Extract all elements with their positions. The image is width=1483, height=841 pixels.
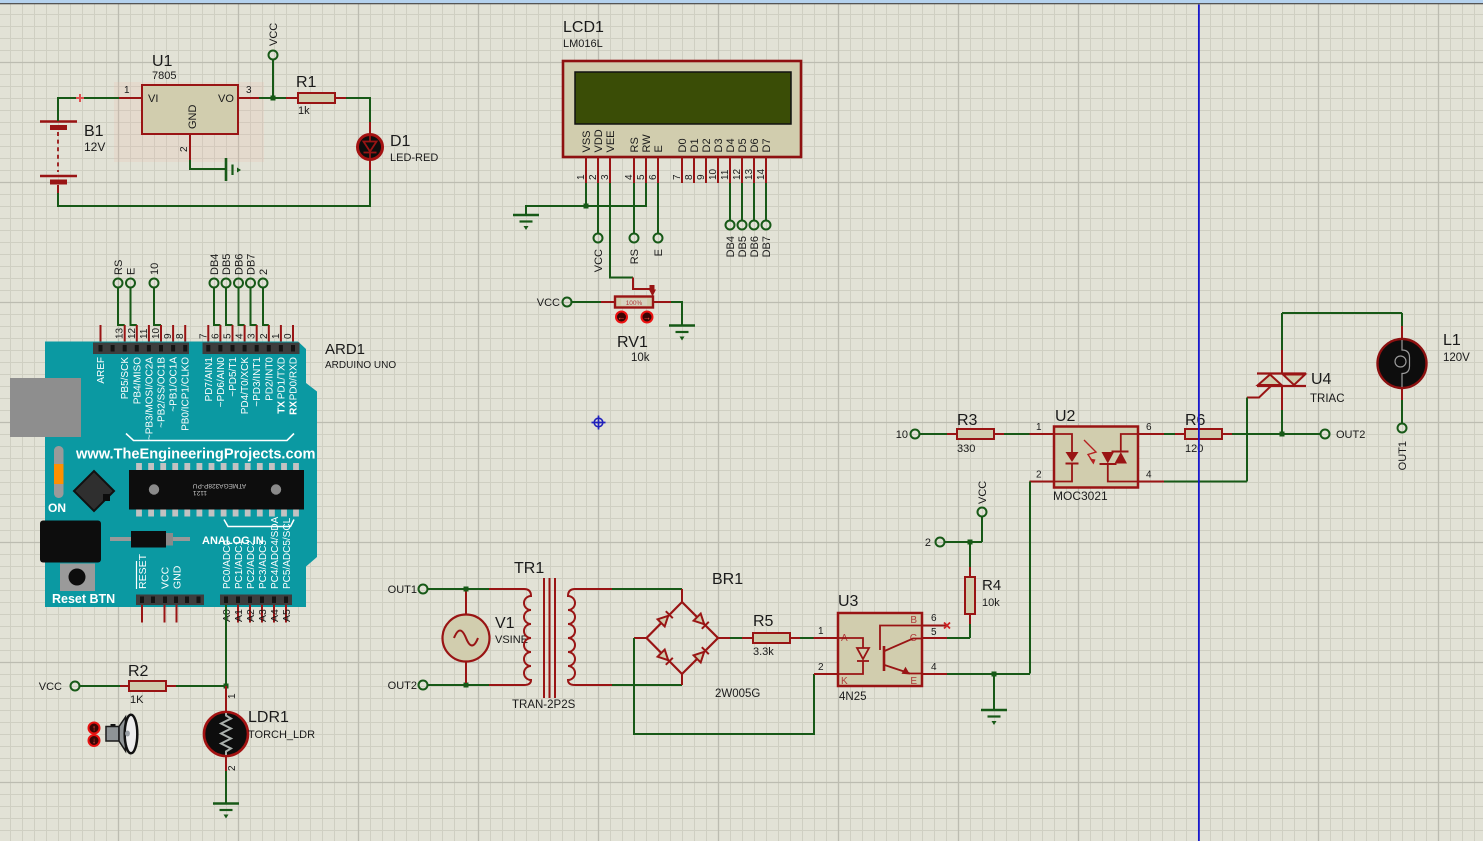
svg-text:5: 5 <box>223 333 234 339</box>
svg-text:V1: V1 <box>495 615 515 632</box>
svg-text:12V: 12V <box>84 140 105 154</box>
svg-text:DB7: DB7 <box>246 254 258 275</box>
svg-text:13: 13 <box>115 327 126 339</box>
svg-text:OUT2: OUT2 <box>1336 429 1365 441</box>
svg-text:ARDUINO UNO: ARDUINO UNO <box>325 360 396 371</box>
svg-text:4: 4 <box>624 174 635 180</box>
svg-text:U1: U1 <box>152 53 173 70</box>
svg-text:~PD6/AIN0: ~PD6/AIN0 <box>216 357 227 408</box>
svg-text:PC3/ADC3: PC3/ADC3 <box>258 540 269 589</box>
svg-text:LCD1: LCD1 <box>563 19 604 36</box>
svg-text:VEE: VEE <box>605 130 617 152</box>
svg-text:VI: VI <box>148 93 158 105</box>
svg-text:TRAN-2P2S: TRAN-2P2S <box>512 699 576 711</box>
svg-text:PC5/ADC5/SCL: PC5/ADC5/SCL <box>282 517 293 589</box>
svg-text:4: 4 <box>931 662 937 673</box>
svg-text:LED-RED: LED-RED <box>390 152 438 164</box>
svg-text:2: 2 <box>227 765 238 771</box>
svg-text:4N25: 4N25 <box>839 691 867 703</box>
svg-text:MOC3021: MOC3021 <box>1053 489 1108 503</box>
svg-text:2: 2 <box>1036 470 1042 481</box>
svg-text:11: 11 <box>139 328 150 339</box>
svg-text:2: 2 <box>259 333 270 339</box>
svg-text:R3: R3 <box>957 412 978 429</box>
svg-text:0: 0 <box>283 333 294 339</box>
svg-text:D3: D3 <box>713 138 725 152</box>
svg-text:VO: VO <box>218 93 234 105</box>
svg-text:330: 330 <box>957 443 975 455</box>
svg-text:D1: D1 <box>390 133 411 150</box>
svg-text:ATMEGA328P-PU: ATMEGA328P-PU <box>193 482 247 489</box>
svg-text:2: 2 <box>258 269 270 275</box>
svg-text:1: 1 <box>1036 422 1042 433</box>
svg-text:~PB1/OC1A: ~PB1/OC1A <box>169 357 180 412</box>
svg-text:PC0/ADC0: PC0/ADC0 <box>222 540 233 589</box>
svg-text:4: 4 <box>235 333 246 339</box>
svg-text:14: 14 <box>756 168 767 180</box>
svg-text:PC4/ADC4/SDA: PC4/ADC4/SDA <box>270 516 281 589</box>
svg-text:PC1/ADC1: PC1/ADC1 <box>234 540 245 589</box>
svg-text:1k: 1k <box>298 105 310 117</box>
svg-text:5: 5 <box>636 174 647 180</box>
svg-text:13: 13 <box>744 168 755 180</box>
svg-text:3.3k: 3.3k <box>753 646 774 658</box>
svg-text:TR1: TR1 <box>514 560 544 577</box>
svg-text:3: 3 <box>247 333 258 339</box>
svg-text:E: E <box>653 145 665 152</box>
svg-text:10: 10 <box>896 429 908 441</box>
svg-text:1K: 1K <box>130 694 144 706</box>
svg-text:A4: A4 <box>269 609 281 622</box>
svg-text:7: 7 <box>672 174 683 180</box>
svg-text:DB4: DB4 <box>209 254 221 275</box>
svg-text:D2: D2 <box>701 138 713 152</box>
svg-text:GND: GND <box>187 105 199 130</box>
svg-text:PD2/INT0: PD2/INT0 <box>264 357 275 401</box>
svg-text:~PD5/T1: ~PD5/T1 <box>228 357 239 397</box>
svg-text:OUT1: OUT1 <box>1397 441 1409 470</box>
svg-text:1: 1 <box>227 693 238 699</box>
svg-text:DB5: DB5 <box>221 254 233 275</box>
svg-text:PD0/RXD: PD0/RXD <box>289 357 300 400</box>
svg-text:TRIAC: TRIAC <box>1310 393 1345 405</box>
svg-text:12: 12 <box>127 327 138 339</box>
svg-text:A5: A5 <box>281 609 293 622</box>
svg-text:6: 6 <box>931 613 937 624</box>
svg-text:D6: D6 <box>749 138 761 152</box>
svg-text:K: K <box>841 676 848 687</box>
svg-text:↓: ↓ <box>92 736 96 746</box>
svg-text:E: E <box>910 676 917 687</box>
svg-text:100%: 100% <box>626 300 643 307</box>
svg-text:2: 2 <box>179 146 190 152</box>
svg-text:6: 6 <box>648 174 659 180</box>
svg-text:9: 9 <box>163 333 174 339</box>
svg-text:AREF: AREF <box>96 357 107 384</box>
svg-text:A3: A3 <box>257 609 269 622</box>
svg-text:3: 3 <box>600 174 611 180</box>
svg-text:RX: RX <box>289 401 300 415</box>
svg-text:1: 1 <box>271 333 282 339</box>
svg-text:ON: ON <box>48 501 66 515</box>
svg-text:8: 8 <box>684 174 695 180</box>
svg-text:120: 120 <box>1185 443 1203 455</box>
svg-text:DB5: DB5 <box>737 236 749 257</box>
svg-text:6: 6 <box>210 333 221 339</box>
svg-text:~PB3/MOSI/OC2A: ~PB3/MOSI/OC2A <box>144 357 155 440</box>
svg-text:7805: 7805 <box>152 70 176 82</box>
svg-text:↑: ↑ <box>92 723 96 733</box>
svg-text:VCC: VCC <box>268 23 280 46</box>
svg-text:OUT2: OUT2 <box>388 680 417 692</box>
svg-text:6: 6 <box>1146 422 1152 433</box>
svg-text:2: 2 <box>818 662 824 673</box>
svg-text:10: 10 <box>149 263 161 275</box>
svg-text:120V: 120V <box>1443 352 1470 364</box>
svg-text:4: 4 <box>1146 470 1152 481</box>
svg-text:9: 9 <box>696 174 707 180</box>
svg-text:A1: A1 <box>233 609 245 622</box>
svg-text:D5: D5 <box>737 138 749 152</box>
svg-text:R2: R2 <box>128 663 149 680</box>
svg-text:PB5/SCK: PB5/SCK <box>120 357 131 400</box>
svg-text:www.TheEngineeringProjects.com: www.TheEngineeringProjects.com <box>75 447 316 463</box>
svg-text:1: 1 <box>576 174 587 180</box>
svg-text:10k: 10k <box>982 597 1000 609</box>
svg-text:VCC: VCC <box>39 681 62 693</box>
svg-text:LM016L: LM016L <box>563 38 603 50</box>
svg-text:Reset BTN: Reset BTN <box>52 592 115 606</box>
svg-text:B1: B1 <box>84 123 104 140</box>
svg-text:←: ← <box>617 312 626 322</box>
svg-text:3: 3 <box>246 85 252 96</box>
svg-text:VDD: VDD <box>593 129 605 152</box>
svg-text:E: E <box>653 249 665 256</box>
svg-text:BR1: BR1 <box>712 571 743 588</box>
svg-text:DB6: DB6 <box>234 254 246 275</box>
svg-text:RS: RS <box>629 249 641 264</box>
svg-text:PC2/ADC2: PC2/ADC2 <box>246 540 257 589</box>
svg-text:12: 12 <box>732 168 743 180</box>
svg-text:VCC: VCC <box>977 481 989 504</box>
svg-text:D0: D0 <box>677 138 689 152</box>
svg-text:GND: GND <box>172 565 184 589</box>
svg-text:VCC: VCC <box>160 566 172 589</box>
svg-text:R6: R6 <box>1185 412 1206 429</box>
svg-text:10: 10 <box>151 327 162 339</box>
svg-text:RS: RS <box>113 260 125 275</box>
svg-text:RW: RW <box>641 134 653 153</box>
svg-text:RV1: RV1 <box>617 334 648 351</box>
svg-text:VCC: VCC <box>593 249 605 272</box>
svg-text:5: 5 <box>931 627 937 638</box>
svg-text:10: 10 <box>708 168 719 180</box>
svg-text:1: 1 <box>124 85 130 96</box>
svg-text:DB4: DB4 <box>725 236 737 257</box>
svg-text:VSS: VSS <box>581 130 593 152</box>
svg-text:LDR1: LDR1 <box>248 709 289 726</box>
svg-text:~PD3/INT1: ~PD3/INT1 <box>252 357 263 407</box>
svg-text:DB6: DB6 <box>749 236 761 257</box>
svg-text:7: 7 <box>198 333 209 339</box>
svg-text:PB0/ICP1/CLKO: PB0/ICP1/CLKO <box>181 357 192 431</box>
svg-text:U4: U4 <box>1311 371 1332 388</box>
svg-text:E: E <box>126 268 138 275</box>
svg-text:11: 11 <box>720 169 731 180</box>
svg-text:PD7/AIN1: PD7/AIN1 <box>204 357 215 402</box>
svg-text:10k: 10k <box>631 352 650 364</box>
svg-text:U3: U3 <box>838 593 859 610</box>
svg-text:D4: D4 <box>725 138 737 152</box>
svg-text:TORCH_LDR: TORCH_LDR <box>248 729 315 741</box>
svg-text:2W005G: 2W005G <box>715 688 760 700</box>
svg-text:2: 2 <box>588 174 599 180</box>
svg-text:→: → <box>643 312 652 322</box>
svg-text:RS: RS <box>629 137 641 152</box>
svg-text:2: 2 <box>925 537 931 549</box>
svg-text:ARD1: ARD1 <box>325 341 365 358</box>
svg-text:TX: TX <box>276 401 287 414</box>
svg-text:L1: L1 <box>1443 332 1461 349</box>
svg-text:D7: D7 <box>761 138 773 152</box>
svg-text:OUT1: OUT1 <box>388 584 417 596</box>
svg-text:DB7: DB7 <box>761 236 773 257</box>
svg-text:R4: R4 <box>982 577 1001 594</box>
svg-text:PD4/T0/XCK: PD4/T0/XCK <box>240 357 251 415</box>
svg-text:~PB2/SS/OC1B: ~PB2/SS/OC1B <box>157 357 168 428</box>
svg-text:RESET: RESET <box>137 553 149 589</box>
svg-text:1121: 1121 <box>193 489 207 496</box>
svg-text:8: 8 <box>175 333 186 339</box>
svg-text:B: B <box>910 615 917 626</box>
svg-text:VCC: VCC <box>537 297 560 309</box>
svg-text:1: 1 <box>818 626 824 637</box>
svg-text:PD1/TXD: PD1/TXD <box>276 357 287 399</box>
svg-text:R1: R1 <box>296 74 317 91</box>
svg-text:R5: R5 <box>753 613 774 630</box>
svg-text:D1: D1 <box>689 138 701 152</box>
svg-text:A2: A2 <box>245 609 257 622</box>
svg-text:U2: U2 <box>1055 408 1076 425</box>
svg-text:PB4/MISO: PB4/MISO <box>132 357 143 404</box>
